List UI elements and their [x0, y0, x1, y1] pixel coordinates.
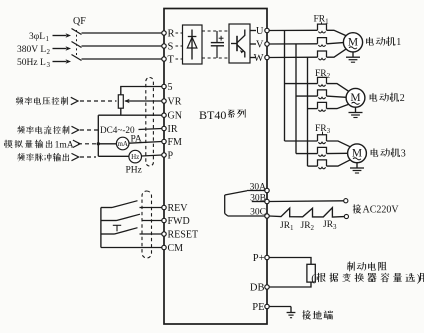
svg-text:1: 1 [396, 37, 401, 48]
svg-text:REV: REV [168, 203, 189, 214]
svg-text:PE: PE [252, 302, 264, 313]
svg-text:IR: IR [168, 124, 178, 135]
svg-text:P: P [168, 150, 174, 161]
svg-text:BT40: BT40 [199, 108, 226, 122]
svg-text:GN: GN [168, 111, 182, 122]
svg-text:FM: FM [168, 137, 183, 148]
svg-text:QF: QF [73, 16, 86, 27]
svg-text:3: 3 [401, 149, 406, 160]
svg-text:V: V [256, 40, 264, 51]
svg-text:1: 1 [46, 35, 50, 43]
svg-text:M: M [352, 148, 362, 160]
svg-text:U: U [256, 26, 264, 37]
svg-text:FWD: FWD [168, 216, 190, 227]
svg-text:): ) [417, 273, 421, 285]
svg-text:50Hz L: 50Hz L [17, 58, 46, 68]
svg-text:3φL: 3φL [29, 32, 45, 42]
svg-text:T: T [168, 55, 175, 66]
svg-text:CM: CM [168, 243, 184, 254]
svg-text:M: M [348, 37, 358, 49]
svg-text:mA: mA [117, 140, 128, 148]
svg-text:1mA: 1mA [55, 140, 74, 150]
svg-text:DC4~-20: DC4~-20 [100, 125, 135, 135]
svg-text:3: 3 [47, 61, 51, 69]
svg-text:P+: P+ [253, 253, 265, 264]
svg-text:5: 5 [168, 82, 173, 93]
svg-text:380V L: 380V L [17, 45, 46, 55]
svg-text:AC220V: AC220V [363, 205, 400, 216]
svg-text:RESET: RESET [168, 230, 199, 241]
svg-text:R: R [168, 29, 175, 40]
svg-text:PHz: PHz [126, 166, 142, 176]
svg-text:S: S [168, 42, 174, 53]
svg-text:Hz: Hz [131, 153, 139, 161]
svg-text:DB: DB [250, 283, 265, 294]
svg-text:PA: PA [131, 135, 142, 145]
svg-text:2: 2 [47, 48, 51, 56]
svg-text:(: ( [311, 273, 315, 285]
svg-text:M: M [350, 92, 360, 104]
svg-text:VR: VR [168, 96, 182, 107]
svg-text:2: 2 [400, 93, 405, 104]
svg-text:W: W [254, 53, 264, 64]
